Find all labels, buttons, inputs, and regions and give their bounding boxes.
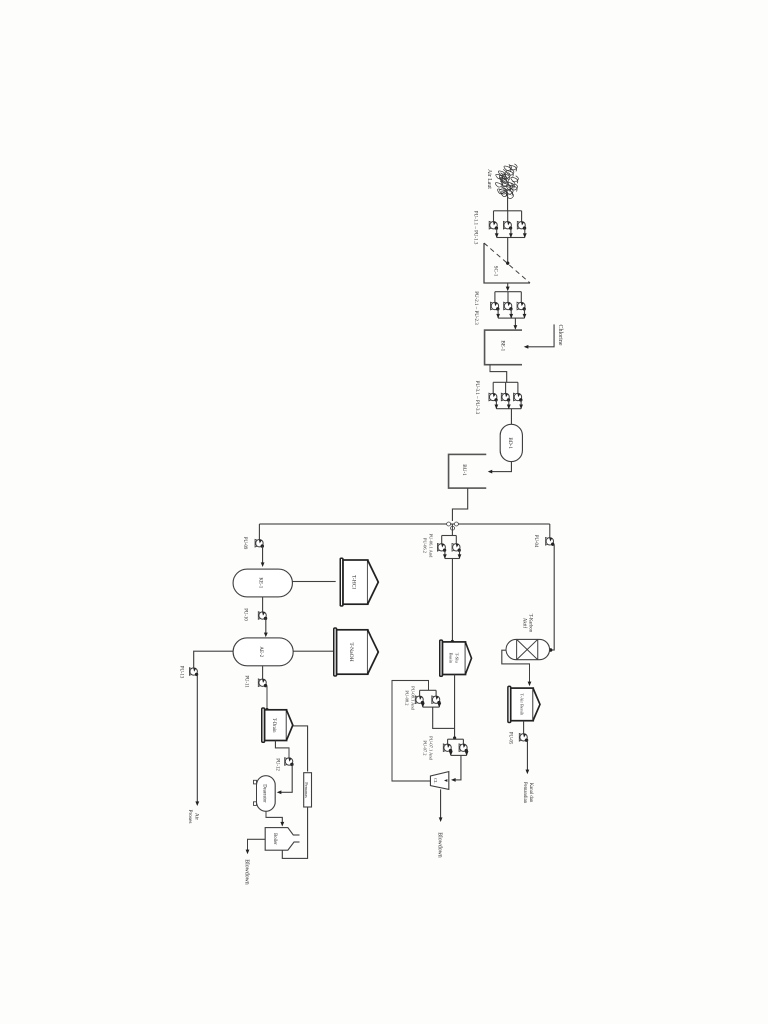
wire header to PU-1.1 [521, 211, 523, 222]
wires header to PU-2 pumps [520, 292, 522, 303]
wire PU-11 to T-Drain [266, 686, 268, 709]
svg-text:Basin: Basin [449, 653, 454, 664]
pump PU-09 [256, 540, 263, 547]
svg-text:PU-08.1 And: PU-08.1 And [411, 686, 416, 711]
pump PU-1.3 [490, 222, 497, 229]
PU-1 collector arrows [523, 233, 527, 238]
wire T-Slu Basin to PU-07 junction [454, 675, 456, 739]
wire squiggle to PU-1 header [507, 193, 509, 211]
PU-3 collector [496, 408, 521, 410]
pump PU-05 [520, 734, 527, 741]
wires header to PU-3 pumps [517, 382, 519, 394]
process water wire to Air Proses [196, 675, 198, 804]
main distribution header (vertical) [452, 523, 549, 525]
svg-text:Pemanas: Pemanas [304, 782, 309, 798]
arrow Air Proses [195, 801, 199, 806]
tank T-Slu Basin [440, 640, 443, 676]
wire PU-06 to T-Slu Basin [451, 559, 453, 642]
svg-text:Deaerator: Deaerator [262, 784, 267, 803]
pump PU-08.1 [432, 696, 439, 703]
basin BU-1 (open top) [449, 454, 487, 488]
PU-1 outlet stubs [524, 228, 526, 237]
wire SC-1 to PU-2 header [507, 283, 509, 290]
PU-07 outlet stubs [466, 751, 468, 756]
svg-text:Proses: Proses [187, 809, 193, 823]
wire PU-08 return to main line [433, 707, 455, 728]
svg-text:T-Slu: T-Slu [455, 653, 460, 664]
wire junction to PU-06 manifold [451, 524, 453, 536]
PU-2 collector arrows [523, 314, 527, 319]
junction fitting (circle cluster) [447, 522, 459, 530]
svg-text:PU-05: PU-05 [508, 732, 513, 745]
arrow blowdown mid [439, 817, 443, 822]
screen SC-1 triangle [484, 243, 530, 283]
pump PU-10 [259, 612, 266, 619]
pump group PU-1.1 - PU-1.3 header [494, 210, 522, 212]
wire PU-2 group to basin BE-1 [514, 318, 516, 328]
wire KE-1 to PU-10 [262, 597, 264, 612]
arrow boiler blowdown [246, 850, 250, 855]
arrow into KE-1 [261, 562, 265, 567]
pump PU-1.1 [518, 222, 525, 229]
wire header to PU-1.2 [507, 211, 509, 222]
tank T-Drain [262, 708, 265, 742]
PU-08 manifold [420, 689, 437, 691]
wire PU-3 group to vessel BD-1 [510, 409, 512, 425]
PU-3 outlet stubs [520, 400, 522, 409]
pump PU-3.3 [490, 393, 497, 400]
PU-07 collector [451, 754, 467, 756]
PU-06 collector [445, 558, 460, 560]
pump PU-07.2 [444, 744, 451, 751]
basin BE-1 (open top) [485, 330, 522, 365]
pump PU-2.2 [504, 302, 511, 309]
anion exchanger AE-2 capsule [233, 638, 293, 666]
svg-text:PU-09: PU-09 [242, 537, 247, 550]
PU-08 collector arrows [437, 703, 441, 708]
pump PU-04 [546, 538, 553, 545]
PU-08 outlet stubs [438, 703, 440, 707]
svg-text:Air: Air [194, 813, 200, 820]
wire T-Air Bersih to PU-05 [523, 721, 525, 734]
wire header to PU-1.3 [493, 211, 495, 222]
boiler outline [265, 828, 299, 851]
svg-text:PU-06.2: PU-06.2 [423, 538, 428, 553]
PU-07 collector arrows [465, 751, 469, 756]
tank T-Air Bersih [508, 686, 511, 722]
wire Pemanas to boiler [282, 807, 307, 858]
wire AE-2 bottom to PU-13 [194, 651, 233, 668]
pump PU-12 [285, 758, 292, 765]
pump PU-07.1 [460, 744, 467, 751]
wire T-NaOH to AE-2 [293, 650, 333, 652]
pump PU-06.1 [453, 544, 460, 551]
svg-text:PU-06.1 And: PU-06.1 And [429, 534, 434, 559]
svg-text:PU-3.1 – PU-3.3: PU-3.1 – PU-3.3 [474, 381, 479, 415]
pump PU-1.2 [504, 222, 511, 229]
wire T-Karbon to T-Air Bersih [502, 650, 530, 684]
svg-text:Chlorine: Chlorine [557, 325, 563, 346]
svg-text:T-Drain: T-Drain [271, 718, 276, 733]
boiler blowdown wire [248, 839, 266, 852]
arrow into boiler [280, 822, 284, 827]
svg-text:PU-11: PU-11 [244, 675, 249, 688]
svg-text:T-Air Bersih: T-Air Bersih [520, 694, 525, 717]
junction dot before PU-07 [453, 736, 456, 739]
wire PU-12 to deaerator [279, 765, 293, 793]
wire PU-10 to AE-2 [265, 619, 267, 636]
svg-text:BU-1: BU-1 [461, 464, 467, 476]
deaerator feet [254, 780, 257, 784]
vessel T-Karbon Aktif (activated carbon filter) [506, 639, 550, 659]
pump group PU-2.1 - PU-2.3 header [495, 291, 521, 293]
svg-text:KE-1: KE-1 [258, 577, 263, 588]
svg-text:Air Laut: Air Laut [486, 169, 492, 189]
wire PU-04 to carbon filter [552, 544, 554, 650]
steam wire T-Drain roof to Pemanas [293, 726, 308, 772]
svg-text:SC-1: SC-1 [493, 266, 499, 277]
svg-text:Pemandian: Pemandian [522, 782, 527, 804]
wire PU-1 group to screen SC-1 [507, 238, 509, 263]
PU-1 collector [497, 237, 525, 239]
wire deaerator to boiler [266, 811, 282, 824]
PU-2 outlet stubs [524, 309, 526, 318]
arrow into T-Air Bersih [528, 682, 532, 687]
svg-text:AE-2: AE-2 [258, 646, 263, 657]
pump PU-2.1 [518, 302, 525, 309]
wire BU-1 to main junction [452, 488, 467, 521]
svg-text:T-HCl: T-HCl [351, 575, 357, 590]
tank T-NaOH [334, 628, 337, 676]
wire BE-1 to PU-3 header [490, 365, 507, 383]
arrow into AE-2 [264, 633, 268, 638]
svg-text:T-Karbon: T-Karbon [528, 614, 533, 633]
svg-text:PU-13: PU-13 [179, 666, 184, 679]
svg-text:BD-1: BD-1 [507, 437, 513, 449]
wire AE-2 to PU-11 [262, 666, 264, 680]
pump PU-08.2 [416, 696, 423, 703]
svg-text:Aktif: Aktif [522, 618, 527, 629]
svg-text:BE-1: BE-1 [500, 340, 506, 351]
svg-text:Boiler: Boiler [272, 833, 277, 845]
svg-text:Blowdown: Blowdown [437, 832, 443, 858]
pump PU-11 [259, 679, 266, 686]
svg-text:PU-12: PU-12 [275, 758, 280, 771]
junction dot at T-Drain [265, 708, 268, 711]
svg-text:PU-04: PU-04 [533, 535, 538, 548]
wire T-Drain to PU-12 [275, 741, 289, 758]
arrow into BU-1 [488, 470, 493, 474]
junction dot at T-Slu Basin inlet [451, 640, 454, 643]
wire PU-07 to clarifier [453, 755, 461, 780]
pump PU-06.2 [438, 544, 445, 551]
svg-text:PU-07.2: PU-07.2 [423, 740, 428, 755]
T-Karbon internal bed square with diagonals [517, 639, 538, 659]
svg-text:T-NaOH: T-NaOH [348, 642, 354, 661]
svg-text:Kanal dan: Kanal dan [528, 783, 533, 803]
pump group PU-3.1 - PU-3.3 header [493, 381, 518, 383]
pump PU-2.3 [491, 302, 498, 309]
arrow into BE-1 [514, 325, 518, 330]
arrow chlorine into BE-1 [524, 345, 529, 349]
svg-text:PU-07.1 And: PU-07.1 And [429, 736, 434, 761]
svg-text:PU-08.2: PU-08.2 [405, 690, 410, 705]
PU-2 collector [498, 317, 524, 319]
PU-06 collector arrows [458, 554, 462, 559]
PU-06 outlet stubs [459, 550, 461, 558]
PU-3 collector arrows [519, 405, 523, 410]
chlorine dosing wire [525, 324, 554, 346]
svg-text:PU-1.1 – PU-1.3: PU-1.1 – PU-1.3 [473, 211, 478, 245]
blowdown wire from clarifier [440, 789, 442, 819]
wires manifold to PU-08 pumps [435, 690, 437, 696]
wire header bottom to PU-09 [258, 524, 260, 540]
deaerator drum capsule [257, 776, 276, 812]
wire header top to PU-04 [549, 524, 551, 538]
svg-text:PU-2.1 – PU-2.3: PU-2.1 – PU-2.3 [473, 291, 478, 325]
cation exchanger KE-1 capsule [233, 569, 292, 597]
wires manifold to PU-06 pumps [455, 536, 457, 545]
recirculation loop clarifier to PU-08 [392, 681, 430, 782]
vessel BD-1 horizontal capsule [500, 424, 522, 461]
raw water source squiggle (sea water intake) [495, 164, 518, 199]
pump PU-13 [190, 668, 197, 675]
PU-08 collector [423, 706, 440, 708]
PU-07 manifold [448, 738, 464, 740]
wire T-HCl to KE-1 [292, 581, 335, 583]
clarifier CL funnel [430, 772, 448, 790]
PU-06 manifold [442, 535, 457, 537]
arrow outfall [526, 770, 530, 775]
wire PU-09 to KE-1 [262, 546, 264, 565]
inlet dot on T-Karbon filter [549, 648, 553, 652]
arrow into deaerator [277, 790, 282, 794]
clarifier internal arrow [444, 779, 447, 782]
pump PU-3.1 [514, 393, 521, 400]
tank T-HCl [340, 558, 343, 606]
wires manifold to PU-07 pumps [462, 739, 464, 744]
wire BD-1 to basin BU-1 [489, 462, 511, 472]
arrow into clarifier CL [451, 778, 456, 782]
wire PU-05 to outfall [526, 740, 528, 772]
pump PU-3.2 [502, 393, 509, 400]
svg-text:PU-10: PU-10 [243, 608, 248, 621]
junction dot on SC-1 screen [506, 262, 509, 265]
heater Pemanas rectangle [304, 773, 312, 807]
svg-text:CL: CL [433, 778, 438, 784]
svg-text:Blowdown: Blowdown [244, 859, 250, 885]
arrow into PU-2 header [506, 287, 510, 292]
